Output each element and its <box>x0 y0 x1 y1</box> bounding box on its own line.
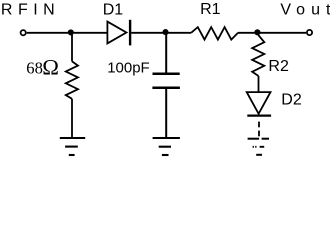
svg-text:D1: D1 <box>103 1 124 18</box>
svg-text:D2: D2 <box>281 91 302 108</box>
svg-text:R1: R1 <box>200 1 221 18</box>
svg-text:68: 68 <box>26 58 43 77</box>
svg-text:100pF: 100pF <box>107 59 150 76</box>
svg-text:Vout: Vout <box>280 1 330 18</box>
svg-text:R2: R2 <box>268 58 289 75</box>
svg-text:RFIN: RFIN <box>1 1 60 18</box>
svg-text:Ω: Ω <box>42 54 59 79</box>
